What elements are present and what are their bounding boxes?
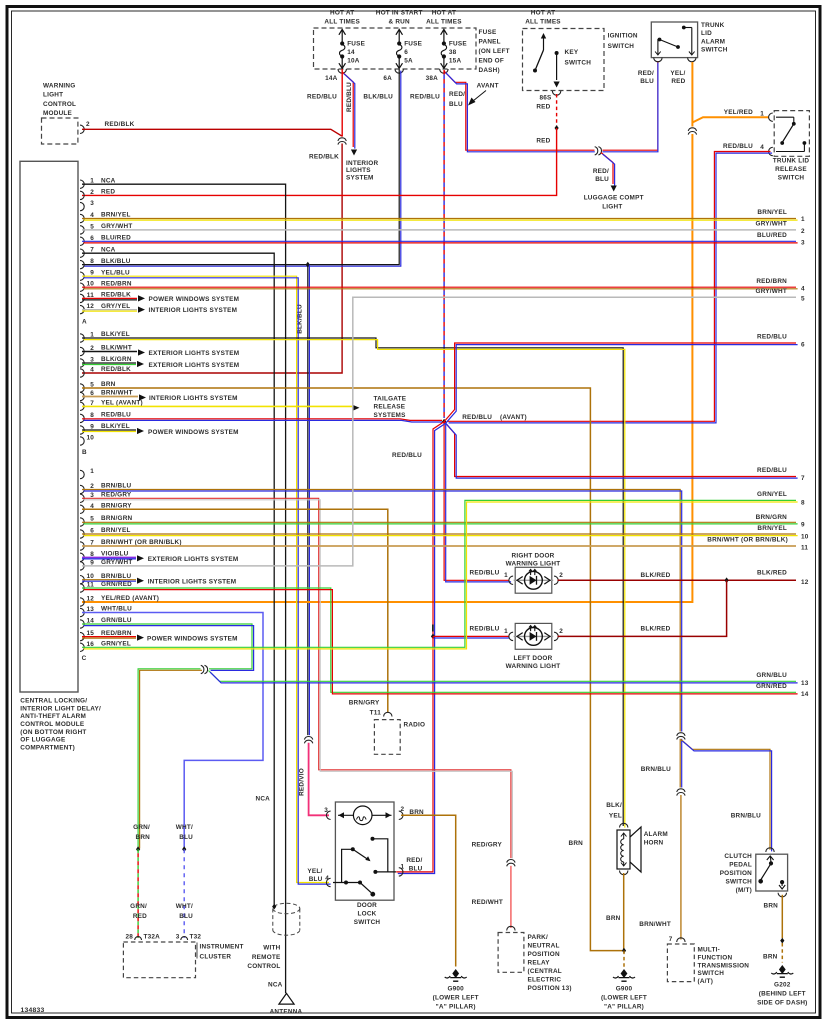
svg-text:FUSE: FUSE [479,29,497,36]
wire BRN dashed to ground G900 [623,951,625,968]
svg-text:RED/BRN: RED/BRN [756,278,787,285]
svg-text:RED: RED [536,104,550,111]
svg-text:BRN/GRY: BRN/GRY [101,503,132,510]
arrow to luggage compt light [611,186,617,192]
svg-text:YEL/RED (AVANT): YEL/RED (AVANT) [101,595,159,602]
svg-text:BLK/YEL: BLK/YEL [101,331,130,338]
svg-text:GRY/WHT: GRY/WHT [101,559,132,566]
wire YEL/BLU pin A9 to door lock switch pin 4 [82,276,329,882]
alarm horn [617,830,630,869]
svg-text:WARNING LIGHT: WARNING LIGHT [506,663,561,670]
svg-text:NEUTRAL: NEUTRAL [528,943,560,950]
svg-text:BLK/GRN: BLK/GRN [101,356,132,363]
svg-text:LOCK: LOCK [358,910,377,917]
svg-text:8: 8 [801,500,805,507]
wire BLK/RED right door pin 2 to terminal 12 [558,579,797,581]
svg-text:WARNING: WARNING [43,83,75,90]
svg-text:SWITCH: SWITCH [778,175,805,182]
svg-text:BLK/BLU: BLK/BLU [363,94,393,101]
wire BRN alarm horn to ground [623,873,625,951]
svg-text:10: 10 [86,435,94,442]
svg-text:BLK/BLU: BLK/BLU [101,258,131,265]
svg-text:8: 8 [90,258,94,265]
svg-text:BLU: BLU [595,176,609,183]
wire GRN/BRN from splice to instrument cluster [138,669,200,847]
svg-text:8: 8 [90,412,94,419]
wire BRN/WHT pin C7 to terminal 11 [82,545,796,547]
svg-text:BRN/GRN: BRN/GRN [101,515,133,522]
svg-text:RELEASE: RELEASE [374,404,406,411]
svg-text:RED/BLU: RED/BLU [307,94,337,101]
svg-text:RED/BRN: RED/BRN [101,280,132,287]
svg-text:RED/BLU: RED/BLU [101,412,131,419]
svg-text:BRN/YEL: BRN/YEL [101,527,131,534]
wire GRN/BLU pin C14 to splice [82,624,252,669]
svg-text:TRANSMISSION: TRANSMISSION [698,962,750,969]
svg-text:RED/BLU: RED/BLU [392,452,422,459]
svg-text:T11: T11 [370,710,382,717]
svg-text:GRN/YEL: GRN/YEL [757,491,787,498]
svg-text:CONTROL: CONTROL [247,963,280,970]
svg-text:FUSE: FUSE [347,41,365,48]
wire BLK/WHT pin B2 stub [82,351,137,353]
svg-text:"A" PILLAR): "A" PILLAR) [436,1004,476,1011]
junction node NCA at cylinder [272,904,276,910]
svg-text:ALARM: ALARM [701,38,725,45]
trunk lid release switch box [774,111,809,157]
wire RED/BLU fuse 14 branch to interior lights arrow [342,72,353,147]
svg-text:BLU: BLU [309,876,323,883]
svg-text:POSITION 13): POSITION 13) [528,985,572,992]
svg-text:WHT/: WHT/ [176,903,193,910]
wire BRN/BLU below connector [679,739,681,788]
wire RED/BLU to left door pin 1 [433,635,510,637]
svg-text:BRN: BRN [101,381,116,388]
svg-text:6A: 6A [383,75,392,82]
svg-text:LUGGAGE COMPT: LUGGAGE COMPT [584,195,644,202]
svg-text:ALL TIMES: ALL TIMES [426,19,462,26]
svg-text:RED/VIO: RED/VIO [299,768,306,796]
svg-text:POSITION: POSITION [528,951,560,958]
svg-text:LEFT DOOR: LEFT DOOR [514,655,553,662]
svg-text:RED/: RED/ [406,857,422,864]
svg-text:BRN: BRN [763,903,778,910]
wire BRN dashed to ground G202 [781,943,783,963]
svg-text:FUSE: FUSE [449,41,467,48]
wire YEL/RED branch to trunk release switch pin 1 [692,117,769,122]
svg-text:LIGHT: LIGHT [602,203,622,210]
svg-text:4: 4 [325,875,329,882]
wire RED/BLU dashed (AVANT) from fuse 38 [443,70,445,418]
wire VIO/BLU pin C8 stub [82,556,136,558]
svg-text:PANEL: PANEL [479,38,501,45]
svg-text:BRN/BLU: BRN/BLU [641,766,671,773]
wire GRN/RED dashed to instrument cluster pin 28 [137,849,139,938]
svg-text:RELAY: RELAY [528,960,551,967]
svg-text:BLU: BLU [640,78,654,85]
svg-text:FUSE: FUSE [404,41,422,48]
wire BRN/BLU pin C2 to clutch pedal switch [82,490,680,732]
svg-text:BLK/WHT: BLK/WHT [101,345,132,352]
svg-text:YEL/RED: YEL/RED [724,109,753,116]
arrow to interior lights system (fuse 14) [351,150,357,156]
svg-text:T32A: T32A [144,934,161,941]
svg-text:RED/BLU: RED/BLU [757,334,787,341]
svg-text:1: 1 [801,216,805,223]
svg-text:5: 5 [90,516,94,523]
svg-text:LID: LID [701,30,712,37]
ignition key switch box [523,29,605,91]
svg-text:ANTI-THEFT ALARM: ANTI-THEFT ALARM [20,713,86,720]
svg-text:BRN/GRN: BRN/GRN [756,514,788,521]
wire RED/BLK pin A11 stub [82,297,137,299]
svg-text:SWITCH: SWITCH [565,60,592,67]
svg-text:134833: 134833 [21,1007,45,1014]
wire YEL pin B7 to tailgate release arrow [82,405,352,407]
trunk lid alarm switch contacts [657,39,659,54]
svg-text:GRY/WHT: GRY/WHT [756,221,787,228]
door lock switch contacts [371,837,375,841]
svg-text:GRN/RED: GRN/RED [101,581,132,588]
svg-text:FUNCTION: FUNCTION [698,954,733,961]
svg-text:1: 1 [504,628,508,635]
svg-text:GRN/: GRN/ [133,824,150,831]
svg-text:ALL TIMES: ALL TIMES [525,19,561,26]
inline connector on YEL/RED [688,127,697,135]
wire BRN/GRN pin C5 to terminal 9 [82,521,796,523]
svg-text:G202: G202 [774,982,791,989]
wire RED/BLK splice down to pin B4 [82,144,342,374]
svg-text:BRN: BRN [568,840,583,847]
svg-text:4: 4 [90,367,94,374]
connector C pins [80,470,84,478]
svg-text:INTERIOR: INTERIOR [346,160,378,167]
svg-text:WHT/: WHT/ [176,824,193,831]
svg-text:EXTERIOR LIGHTS SYSTEM: EXTERIOR LIGHTS SYSTEM [149,350,240,357]
svg-text:GRN/BLU: GRN/BLU [756,672,787,679]
svg-text:ANTENNA: ANTENNA [270,1009,303,1016]
svg-text:KEY: KEY [565,49,579,56]
ground G202 symbol [779,965,786,974]
svg-text:RED/BLK: RED/BLK [101,292,131,299]
antenna symbol [279,993,294,1004]
svg-text:5: 5 [801,296,805,303]
svg-text:2: 2 [559,572,563,579]
wire RED/VIO down to door lock switch pin 3 [309,743,329,816]
svg-text:RED/GRY: RED/GRY [472,841,503,848]
svg-text:INTERIOR LIGHTS SYSTEM: INTERIOR LIGHTS SYSTEM [149,307,238,314]
svg-text:BLK/RED: BLK/RED [641,572,671,579]
svg-text:RED: RED [536,138,550,145]
svg-text:EXTERIOR LIGHTS SYSTEM: EXTERIOR LIGHTS SYSTEM [149,362,240,369]
svg-text:38: 38 [449,49,457,56]
central locking control module box [20,161,78,692]
junction node RED/BLU (AVANT) [442,419,446,425]
svg-text:B: B [82,449,87,456]
wire BRN pin B5 down to ground junction [82,388,622,951]
junction node BLK/RED [725,577,729,583]
svg-text:6: 6 [404,49,408,56]
wire BLK/BLU from fuse 6 down and left to pin A8 [82,69,399,265]
svg-text:CENTRAL LOCKING/: CENTRAL LOCKING/ [20,698,87,705]
svg-text:BLU/RED: BLU/RED [757,232,787,239]
svg-text:CLUSTER: CLUSTER [200,954,232,961]
wire RED from key switch to pin A2 [82,128,557,195]
wire WHT/BLU pin C13 to instrument cluster [82,613,263,848]
svg-text:MULTI-: MULTI- [698,947,721,954]
svg-text:BRN/YEL: BRN/YEL [757,209,787,216]
wire YEL/RED from trunk lid alarm switch down [691,62,693,127]
wire NCA pin A7 [82,253,274,905]
svg-text:POSITION: POSITION [720,870,752,877]
wire RED/BLU pin B8 to junction [82,419,442,421]
inline connector BLK/BLU to RED/VIO [304,735,313,743]
cylinder connector (remote control receiver) [273,903,300,913]
svg-text:BRN/YEL: BRN/YEL [101,212,131,219]
svg-text:BRN/GRY: BRN/GRY [349,700,380,707]
svg-text:10: 10 [801,533,809,540]
svg-text:COMPARTMENT): COMPARTMENT) [20,744,75,751]
svg-text:GRY/WHT: GRY/WHT [756,288,787,295]
svg-text:ELECTRIC: ELECTRIC [528,977,562,984]
svg-text:9: 9 [801,522,805,529]
svg-text:RED: RED [133,913,147,920]
svg-text:PEDAL: PEDAL [729,862,752,869]
wire BRN/BLU diagonal branch to clutch pedal position switch [681,740,770,850]
svg-text:ALL TIMES: ALL TIMES [324,19,360,26]
wire RED/WHT down to relay [510,866,512,928]
svg-text:BRN: BRN [135,834,150,841]
junction node on RED wire [555,125,559,131]
wire BRN/BLU pin C10 stub [82,579,136,581]
wire BLK/BLU down from junction [307,265,309,736]
door lock switch bulb [353,806,372,825]
svg-text:INTERIOR LIGHTS SYSTEM: INTERIOR LIGHTS SYSTEM [149,395,238,402]
svg-text:1: 1 [760,110,764,117]
svg-text:2: 2 [401,806,405,813]
svg-text:HOT IN START: HOT IN START [376,10,423,17]
svg-text:ALARM: ALARM [644,831,668,838]
svg-text:4: 4 [801,286,805,293]
svg-text:2: 2 [559,628,563,635]
svg-text:RED/BLU: RED/BLU [470,626,500,633]
svg-text:BLK/RED: BLK/RED [757,570,787,577]
svg-text:RED/BLU: RED/BLU [410,94,440,101]
svg-text:BRN/BLU: BRN/BLU [731,812,761,819]
door lock switch pin 4 [326,878,330,886]
svg-text:POWER WINDOWS SYSTEM: POWER WINDOWS SYSTEM [148,429,239,436]
svg-text:LIGHTS: LIGHTS [346,167,371,174]
svg-text:2: 2 [86,121,90,128]
inline connector GRN/BLU splice [201,665,209,674]
wire NCA pin A1 [82,184,286,993]
inline connector on RED/BLK wire [338,137,347,145]
svg-text:(BEHIND LEFT: (BEHIND LEFT [759,991,806,998]
ground G900 middle [621,969,628,978]
wire RED/BLU junction up to terminal 6 [444,343,796,422]
svg-text:1: 1 [504,572,508,579]
clutch pedal position switch box [756,854,788,891]
wire RED/BLU junction down to right door warning light [444,422,509,581]
svg-text:(CENTRAL: (CENTRAL [528,968,562,975]
svg-text:38A: 38A [426,75,439,82]
svg-text:BLK/: BLK/ [606,802,622,809]
svg-text:RED/BLU: RED/BLU [462,414,492,421]
svg-text:SYSTEM: SYSTEM [346,174,374,181]
svg-text:BLU: BLU [179,913,193,920]
svg-text:NCA: NCA [101,246,116,253]
svg-text:GRN/: GRN/ [130,903,147,910]
park/neutral position relay [507,926,515,930]
svg-text:SIDE OF DASH): SIDE OF DASH) [757,1000,807,1007]
svg-text:BLU: BLU [409,865,423,872]
inline connector on RED/BLU feed wire [595,146,603,155]
svg-text:RADIO: RADIO [404,722,426,729]
wire GRY/WHT pin C9 to terminal 5 [82,297,796,566]
svg-text:REMOTE: REMOTE [252,954,281,961]
svg-text:RED: RED [101,189,115,196]
svg-text:SWITCH: SWITCH [701,47,728,54]
svg-text:CONTROL MODULE: CONTROL MODULE [20,721,85,728]
svg-text:A: A [82,319,87,326]
right door warning light U1 [515,567,552,593]
svg-text:BRN/BLU: BRN/BLU [101,573,131,580]
svg-text:BRN/WHT (OR BRN/BLK): BRN/WHT (OR BRN/BLK) [707,537,788,544]
wire RED/BRN pin C15 stub [82,636,136,638]
svg-text:YEL (AVANT): YEL (AVANT) [101,400,143,407]
svg-text:SYSTEMS: SYSTEMS [374,412,407,419]
svg-text:RED: RED [671,78,685,85]
wire BLU/RED pin A6 to terminal 3 [82,240,796,242]
svg-text:RED/BLU: RED/BLU [346,82,353,112]
junction node BRN at ground [622,948,626,954]
svg-text:3: 3 [324,807,328,814]
inline connector BRN/BLU to BRN/WHT [676,788,685,796]
wire RED/BLU junction down to terminal 7 [444,422,796,477]
connector A pins [80,180,84,188]
wire BRN door lock pin 2 to ground [401,815,456,966]
svg-text:1: 1 [90,468,94,475]
svg-text:RIGHT DOOR: RIGHT DOOR [511,552,554,559]
wire GRN/RED pin C11 to terminal 14 [82,588,796,692]
svg-text:RELEASE: RELEASE [775,166,807,173]
svg-text:15A: 15A [449,58,462,65]
wire GRN/BLU branch to terminal 13 [209,671,797,682]
svg-text:3: 3 [90,200,94,207]
svg-text:NCA: NCA [101,177,116,184]
junction node BRN clutch [780,938,784,944]
trunk lid alarm switch box [651,22,697,58]
trunk lid release switch contacts [776,116,794,118]
wire BLK/YEL pin B1 to alarm horn [82,338,623,826]
svg-text:NCA: NCA [268,982,283,989]
wire WHT/BLU dashed to instrument cluster pin 3 [183,849,185,938]
junction node on BLK/BLU [306,262,310,268]
svg-text:WITH: WITH [263,945,280,952]
svg-text:3: 3 [176,934,180,941]
svg-text:BLU: BLU [179,834,193,841]
door lock switch pin 2 [399,811,403,819]
svg-text:BLK/BLU: BLK/BLU [297,304,304,334]
svg-text:4: 4 [760,144,764,151]
svg-text:RED/GRY: RED/GRY [101,492,132,499]
door lock switch pin 3 [326,811,330,819]
svg-text:YEL/: YEL/ [307,868,322,875]
svg-text:EXTERIOR LIGHTS SYSTEM: EXTERIOR LIGHTS SYSTEM [148,556,239,563]
svg-text:YEL: YEL [609,813,622,820]
svg-text:TAILGATE: TAILGATE [374,395,407,402]
svg-text:12: 12 [86,596,94,603]
svg-text:BLK/RED: BLK/RED [641,626,671,633]
svg-text:(AVANT): (AVANT) [500,414,527,421]
wire BRN/GRY pin C4 to radio [82,509,388,712]
svg-text:BRN/YEL: BRN/YEL [757,525,787,532]
svg-text:TRUNK: TRUNK [701,22,725,29]
svg-text:RED/: RED/ [593,168,609,175]
svg-text:11: 11 [801,545,808,552]
svg-text:POWER WINDOWS SYSTEM: POWER WINDOWS SYSTEM [147,635,238,642]
svg-text:BRN/BLU: BRN/BLU [101,483,131,490]
wire RED/BLU fuse 14 down leg [341,69,343,137]
wire BLK/RED left door pin 2 up to junction [558,580,727,636]
svg-text:INSTRUMENT: INSTRUMENT [200,944,244,951]
svg-text:RED/BLK: RED/BLK [309,154,339,161]
svg-text:WHT/BLU: WHT/BLU [101,606,132,613]
svg-text:INTERIOR LIGHTS SYSTEM: INTERIOR LIGHTS SYSTEM [148,578,237,585]
wire RED/BRN pin A10 to terminal 4 [82,286,796,288]
wire BLK/YEL pin B9 stub [82,429,136,431]
svg-text:DASH): DASH) [479,67,500,74]
svg-text:SWITCH: SWITCH [725,878,752,885]
clutch pedal switch contacts [767,856,774,860]
svg-text:HOT AT: HOT AT [531,10,555,17]
svg-text:BLK/YEL: BLK/YEL [101,423,130,430]
svg-text:RED/: RED/ [638,70,654,77]
svg-text:12: 12 [801,579,809,586]
svg-text:RED/BRN: RED/BRN [101,630,132,637]
svg-text:NCA: NCA [255,796,270,803]
svg-text:6: 6 [801,341,805,348]
svg-text:VIO/BLU: VIO/BLU [101,551,129,558]
svg-text:BRN: BRN [606,915,621,922]
svg-text:RED/WHT: RED/WHT [472,899,503,906]
svg-text:GRN/YEL: GRN/YEL [101,641,131,648]
wire YEL/RED down to pin C12 [82,134,692,602]
wire RED/BLU fuse 38 solid branch [444,71,595,150]
svg-text:(M/T): (M/T) [736,887,752,894]
svg-text:3: 3 [801,240,805,247]
svg-text:1: 1 [401,863,405,870]
svg-text:"A" PILLAR): "A" PILLAR) [604,1004,644,1011]
svg-text:(LOWER LEFT: (LOWER LEFT [433,995,479,1002]
svg-text:T32: T32 [190,934,202,941]
svg-text:TRUNK LID: TRUNK LID [773,158,810,165]
svg-text:BLU: BLU [449,101,463,108]
svg-text:YEL/: YEL/ [670,70,685,77]
svg-text:7: 7 [801,475,805,482]
svg-text:RED/BLU: RED/BLU [470,570,500,577]
junction node GRN/BRN [136,846,140,852]
svg-text:GRN/BLU: GRN/BLU [101,617,132,624]
left door warning light U2 [515,623,552,649]
wire GRY/YEL pin A12 stub [82,309,137,311]
svg-text:SWITCH: SWITCH [354,919,381,926]
wire GRN/YEL pin C16 to terminal 8 [82,500,796,647]
svg-text:(ON BOTTOM RIGHT: (ON BOTTOM RIGHT [20,729,86,736]
svg-text:5A: 5A [404,58,413,65]
svg-text:7: 7 [669,936,673,943]
wire BLK/GRN pin B3 stub [82,362,136,364]
